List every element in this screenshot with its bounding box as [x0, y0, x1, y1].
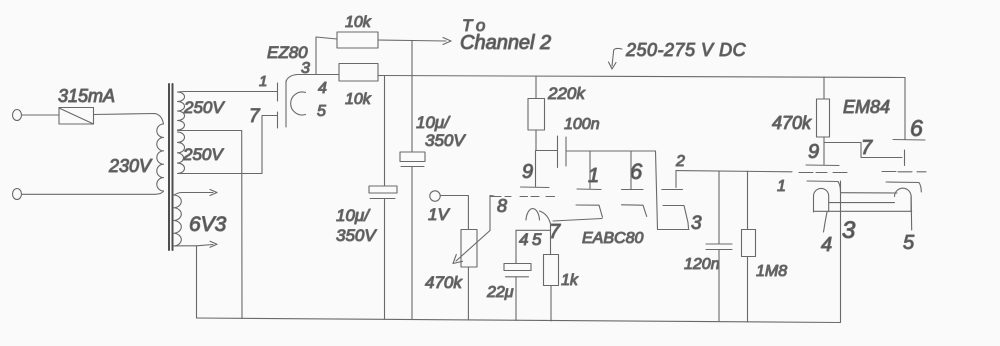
resistor 220k — [535, 76, 537, 99]
EM84 inner line 1 — [841, 192, 897, 194]
EZ80 inner electrode bar — [285, 81, 287, 127]
svg-text:470k: 470k — [772, 113, 812, 133]
cathode line — [553, 219, 602, 222]
heater lead top with arrow — [174, 193, 213, 196]
heater lead 4 — [824, 212, 828, 232]
svg-text:250-275 V DC: 250-275 V DC — [625, 40, 747, 60]
pot wiper arrow — [456, 231, 490, 262]
diode 6 plate — [622, 205, 647, 217]
svg-text:350V: 350V — [336, 226, 377, 245]
resistor 10k top — [337, 32, 378, 48]
svg-text:315mA: 315mA — [58, 86, 115, 106]
filter cap C2 10u/350V — [411, 41, 413, 153]
pot bottom wire — [467, 267, 469, 320]
deflection line right — [886, 182, 921, 192]
envelope drop wire — [656, 151, 658, 230]
svg-text:1: 1 — [588, 165, 599, 187]
cathode cap 22u — [515, 230, 517, 263]
svg-text:22μ: 22μ — [486, 284, 514, 301]
EM84 dash row left — [799, 172, 847, 174]
svg-text:250V: 250V — [182, 145, 224, 164]
heater winding 6V3 — [174, 195, 181, 246]
EZ80 cathode arc — [291, 92, 306, 115]
svg-text:8: 8 — [497, 196, 507, 216]
EM84 inner line 2 — [829, 202, 895, 204]
triode plate — [663, 206, 689, 229]
diode 1 plate — [576, 205, 603, 217]
svg-text:Channel 2: Channel 2 — [460, 32, 551, 54]
svg-text:10k: 10k — [345, 91, 372, 108]
svg-text:6V3: 6V3 — [189, 213, 227, 236]
terminal input top — [13, 110, 22, 121]
wire 100n to diode plates — [566, 150, 656, 152]
wire sec1 top to EZ80 plate 1 — [178, 91, 278, 94]
lead 5 — [910, 195, 913, 230]
svg-text:230V: 230V — [108, 156, 153, 176]
EZ80 top curve to pin3 — [286, 75, 339, 83]
svg-text:5: 5 — [903, 232, 915, 254]
wire to 100n and grid 9 — [536, 149, 558, 151]
arrow to rail — [612, 48, 622, 66]
wire heater to bottom rail — [196, 246, 198, 318]
ground return rail — [197, 318, 841, 323]
svg-text:6: 6 — [910, 115, 923, 141]
wire pin9/pin7 — [824, 143, 902, 158]
pin9 bar — [806, 164, 839, 167]
EM84 cathode arc right — [895, 188, 912, 211]
diode 6 stub and bar — [630, 151, 632, 189]
svg-text:EABC80: EABC80 — [582, 230, 643, 247]
svg-text:10μ/: 10μ/ — [416, 113, 451, 132]
svg-text:5: 5 — [532, 230, 542, 249]
svg-text:1: 1 — [777, 178, 786, 195]
EABC80 cathode arc — [526, 209, 540, 220]
svg-text:4: 4 — [318, 80, 327, 97]
svg-text:250V: 250V — [183, 98, 225, 117]
triode plate structure pin2 — [675, 171, 677, 188]
svg-text:350V: 350V — [425, 131, 466, 150]
cathode lead pin7 — [540, 211, 551, 255]
svg-text:470k: 470k — [425, 273, 463, 292]
svg-text:100n: 100n — [564, 116, 600, 133]
svg-text:3: 3 — [301, 60, 310, 77]
EZ80 plate bar pin1 — [277, 83, 279, 101]
resistor 1M8 — [747, 171, 749, 229]
heater lead bottom with arrow — [174, 245, 213, 247]
transformer primary winding — [157, 124, 164, 191]
B+ rail — [378, 76, 905, 78]
svg-text:6: 6 — [630, 159, 643, 184]
svg-text:7: 7 — [249, 106, 261, 127]
svg-text:220k: 220k — [547, 84, 586, 103]
wire pin2 to EM84 pin1 — [676, 171, 792, 172]
wiper wire to pin 8 — [490, 196, 494, 231]
wire — [22, 191, 164, 194]
EM84 indicator: plate feed from rail — [904, 78, 906, 140]
fuse F1 315mA — [59, 108, 94, 125]
heater bar — [516, 229, 551, 231]
center tap wire — [178, 131, 243, 319]
deflection line left — [807, 181, 841, 192]
svg-text:7: 7 — [549, 221, 561, 243]
svg-text:3: 3 — [691, 213, 702, 234]
pin7 bar — [904, 150, 906, 166]
coupling cap 100n — [557, 136, 559, 168]
secondary winding 250V bottom — [178, 132, 185, 174]
resistor 10k bottom — [339, 64, 378, 82]
EM84 bottom line — [814, 210, 912, 212]
cathode resistor 1k — [544, 255, 559, 286]
svg-text:1k: 1k — [561, 272, 579, 289]
svg-text:10μ/: 10μ/ — [336, 206, 371, 225]
svg-text:2: 2 — [675, 153, 685, 170]
cap 120n — [718, 171, 720, 244]
cathode dashes — [490, 196, 555, 198]
cathode lead 3 to rail — [840, 181, 842, 323]
EM84 cathode arc left — [814, 188, 829, 212]
EZ80 plate bar pin7 — [277, 112, 279, 128]
pin6 bar — [893, 139, 925, 142]
pin3 riser — [316, 37, 337, 75]
wire — [22, 114, 59, 116]
svg-text:EM84: EM84 — [843, 97, 890, 117]
wire input to pot — [440, 196, 468, 230]
svg-text:9: 9 — [522, 161, 533, 183]
resistor 470k EM84 — [823, 77, 825, 99]
svg-text:9: 9 — [808, 141, 819, 163]
svg-text:4: 4 — [821, 234, 832, 256]
terminal input bottom — [13, 189, 22, 200]
svg-text:7: 7 — [861, 137, 873, 159]
EABC80 grid bar pin9 — [521, 186, 550, 189]
svg-text:10k: 10k — [345, 14, 372, 31]
svg-text:1M8: 1M8 — [756, 263, 787, 280]
wire fuse to primary — [94, 114, 164, 125]
grid pin9 drop — [823, 143, 825, 165]
svg-text:120n: 120n — [684, 256, 720, 273]
wire sec2 bottom to pin 7 — [178, 116, 278, 174]
diode 1 stub and bar — [589, 151, 591, 189]
potentiometer 470k body — [461, 230, 477, 268]
svg-text:5: 5 — [317, 103, 326, 120]
wire to channel 2 with arrow — [378, 40, 446, 41]
input terminal 1V — [430, 191, 440, 201]
svg-text:4: 4 — [519, 230, 528, 249]
svg-text:3: 3 — [842, 217, 856, 244]
filter cap C1 10u/350V — [384, 76, 386, 187]
EM84 dash row right — [882, 171, 926, 173]
transformer core — [168, 84, 170, 250]
secondary winding 250V top — [178, 92, 185, 130]
svg-text:1: 1 — [259, 73, 267, 90]
svg-text:1V: 1V — [428, 205, 450, 224]
